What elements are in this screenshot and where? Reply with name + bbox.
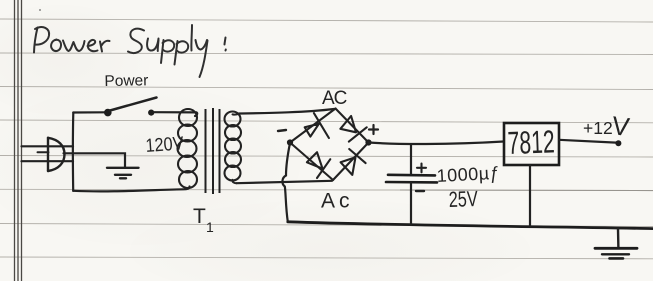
wire left riser [72, 113, 75, 191]
svg-text:25V: 25V [448, 186, 478, 212]
transformer T1 secondary winding [225, 112, 242, 181]
wire secondary coil top connector [233, 114, 240, 115]
wire switch to transformer primary top [154, 112, 197, 116]
ground (output return) stem [617, 229, 620, 248]
label 7812 [507, 123, 555, 161]
capacitor C1 top lead [410, 144, 412, 174]
wire plus rail to regulator [369, 142, 504, 144]
label minus at bridge [278, 130, 286, 131]
svg-text:Ac: Ac [321, 190, 354, 213]
wire regulator output [559, 140, 616, 143]
wire plug to mains ground [64, 153, 126, 167]
wire bottom-left to transformer primary [73, 187, 189, 192]
plug prong top [22, 145, 74, 147]
wire secondary bottom to bridge AC bottom [237, 181, 333, 183]
label plus at capacitor [417, 164, 426, 173]
svg-text:+12: +12 [583, 118, 613, 138]
plug prong ground (middle) [38, 151, 49, 153]
svg-text:AC: AC [322, 88, 347, 109]
svg-text:1000µƒ: 1000µƒ [436, 163, 500, 186]
svg-text:Power: Power [104, 72, 148, 90]
title Power Supply: [34, 25, 226, 77]
capacitor C1 plates [386, 175, 437, 183]
transformer T1 core [206, 108, 220, 194]
plug P1 body [48, 138, 65, 171]
diode D2 (bridge top-right) [336, 109, 369, 143]
diode D4 (bridge bottom-right) [333, 143, 369, 181]
wire minus riser down with hop over AC wire [282, 143, 290, 222]
label minus at capacitor [416, 190, 424, 192]
regulator U1 7812 box [504, 123, 559, 165]
svg-text:7812: 7812 [507, 123, 555, 161]
plug prong bottom [22, 160, 74, 162]
node +12V output terminal [615, 140, 621, 146]
label plus at bridge [369, 125, 378, 134]
diode D3 (bridge bottom-left) [290, 143, 333, 181]
ground (output return) symbol [595, 248, 637, 258]
node minus (bridge left vertex) [287, 139, 293, 145]
diode D1 (bridge top-left) [290, 109, 336, 143]
transformer T1 primary winding [178, 109, 198, 188]
wire top-left from plug riser to switch [73, 111, 104, 113]
node plus (bridge right vertex) [365, 139, 371, 145]
capacitor C1 bottom lead [410, 183, 412, 225]
wire secondary coil bottom connector [232, 180, 236, 183]
svg-text:T: T [193, 205, 206, 228]
wire regulator ground pin [529, 165, 531, 226]
ground (mains earth) [107, 168, 139, 179]
wire secondary top to bridge AC top [239, 109, 334, 114]
switch S1 [104, 98, 157, 117]
svg-text:1: 1 [206, 219, 214, 235]
label +12V [583, 110, 632, 142]
wire minus rail bottom [288, 222, 653, 229]
